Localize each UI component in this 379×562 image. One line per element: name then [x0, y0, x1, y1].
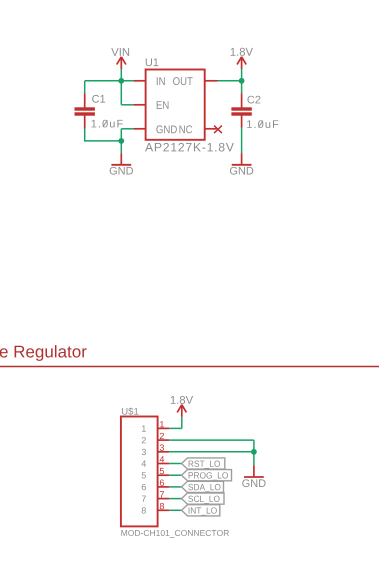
wire pin 8 to flag	[169, 509, 181, 511]
wire VIN arrow to junction	[120, 69, 122, 81]
supply VIN symbol	[117, 57, 126, 69]
wire pin 3 right	[169, 451, 254, 453]
junction VIN	[118, 78, 124, 84]
ground symbol bottom	[244, 465, 264, 477]
label U1	[146, 59, 159, 67]
net flag SDA_LO	[182, 481, 224, 492]
label GND bottom	[242, 479, 265, 487]
wire to pin 1	[169, 427, 182, 429]
capacitor C1	[75, 81, 95, 142]
pin label IN	[157, 77, 165, 85]
label 1.0uF C1	[92, 120, 123, 128]
pin label OUT	[173, 77, 193, 85]
label MOD-CH101_CONNECTOR	[121, 530, 229, 538]
supply 1.8V symbol bottom	[177, 405, 186, 417]
pin 1 stub	[158, 427, 170, 429]
wire 1.8V down	[181, 417, 183, 429]
ground symbol left	[111, 153, 131, 165]
pin 7 stub	[158, 498, 170, 500]
ground symbol right	[232, 153, 252, 165]
title rule	[0, 366, 379, 368]
junction pin 3	[251, 449, 257, 455]
pin name 8	[142, 507, 146, 513]
pin number 4	[160, 456, 165, 462]
net flag INT_LO	[182, 505, 220, 516]
pin GND stub	[134, 128, 146, 130]
pin number 6	[160, 480, 164, 486]
pin IN stub	[134, 80, 146, 82]
wire pin 2 down	[253, 440, 255, 452]
pin EN stub	[134, 104, 146, 106]
wire junction down to EN level	[120, 81, 122, 105]
pin label EN	[157, 101, 169, 109]
pin 8 stub	[158, 509, 170, 511]
label 1.0uF C2	[247, 120, 278, 128]
pin name 3	[142, 449, 146, 455]
wire 1.8V to junction	[241, 69, 243, 81]
label U$1	[122, 407, 138, 415]
regulator U1 box	[146, 70, 205, 140]
supply 1.8V symbol top	[237, 57, 246, 69]
net flag RST_LO	[182, 458, 225, 469]
pin 6 stub	[158, 486, 170, 488]
wire pin 6 to flag	[169, 486, 181, 488]
label C1	[92, 95, 105, 103]
net flag PROG_LO	[182, 470, 232, 481]
wire OUT to junction	[218, 80, 242, 82]
pin name 7	[142, 496, 146, 502]
pin 2 stub	[158, 439, 170, 441]
wire junction to ground	[253, 452, 255, 465]
pin name 1	[142, 425, 146, 431]
pin name 4	[142, 461, 147, 467]
junction OUT	[239, 78, 245, 84]
net flag SCL_LO	[182, 493, 225, 504]
pin 5 stub	[158, 474, 170, 476]
wire C1 bottom to junction	[85, 140, 122, 142]
no-connect X marker	[214, 126, 222, 134]
label C2	[247, 96, 260, 104]
pin number 5	[160, 468, 164, 474]
pin name 6	[142, 484, 146, 490]
pin OUT stub	[205, 80, 218, 82]
pin number 3	[160, 444, 164, 450]
pin number 8	[160, 503, 164, 509]
wire GND pin horizontal	[121, 128, 133, 130]
pin NC stub	[205, 128, 217, 130]
wire pin 4 to flag	[169, 463, 181, 465]
wire pin 5 to flag	[169, 474, 181, 476]
wire VIN rail to C1 and IN	[85, 80, 134, 82]
label GND right	[230, 167, 253, 175]
pin number 7	[160, 491, 164, 497]
connector U$1 box	[121, 417, 158, 527]
wire junction to ground	[120, 141, 122, 153]
wire to EN pin	[121, 104, 133, 106]
pin 3 stub	[158, 451, 170, 453]
title text	[0, 345, 87, 361]
label VIN	[111, 48, 129, 56]
label AP2127K-1.8V	[145, 143, 234, 152]
pin number 2	[160, 433, 164, 439]
pin name 5	[142, 472, 146, 478]
pin 4 stub	[158, 463, 170, 465]
pin number 1	[160, 421, 164, 427]
pin name 2	[142, 437, 146, 443]
wire GND pin down	[120, 129, 122, 142]
label GND left	[110, 167, 133, 175]
label 1.8V top	[231, 48, 253, 56]
wire pin 2 right	[169, 439, 254, 441]
wire pin 7 to flag	[169, 498, 181, 500]
capacitor C2	[231, 81, 251, 153]
junction GND left	[118, 138, 124, 144]
pin label GND	[156, 125, 176, 133]
label 1.8V bottom	[171, 396, 193, 404]
pin label NC	[179, 125, 192, 133]
